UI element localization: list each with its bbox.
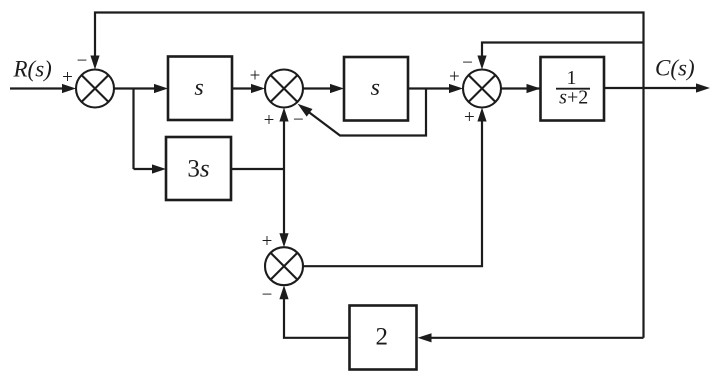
svg-text:+: +: [262, 231, 273, 252]
svg-text:−: −: [77, 51, 88, 72]
svg-text:s: s: [371, 75, 380, 101]
svg-text:−: −: [462, 52, 473, 73]
svg-text:s: s: [194, 75, 203, 101]
svg-text:+: +: [464, 107, 475, 128]
svg-text:C(s): C(s): [655, 56, 695, 81]
svg-text:+: +: [264, 110, 275, 131]
svg-text:R(s): R(s): [13, 57, 52, 82]
svg-text:−: −: [262, 285, 273, 306]
svg-text:+: +: [449, 67, 460, 88]
svg-text:+: +: [62, 67, 73, 88]
svg-text:−: −: [293, 110, 304, 131]
svg-text:+: +: [250, 65, 261, 86]
svg-text:3s: 3s: [187, 156, 209, 183]
svg-text:2: 2: [375, 324, 388, 351]
svg-text:s+2: s+2: [559, 87, 588, 109]
